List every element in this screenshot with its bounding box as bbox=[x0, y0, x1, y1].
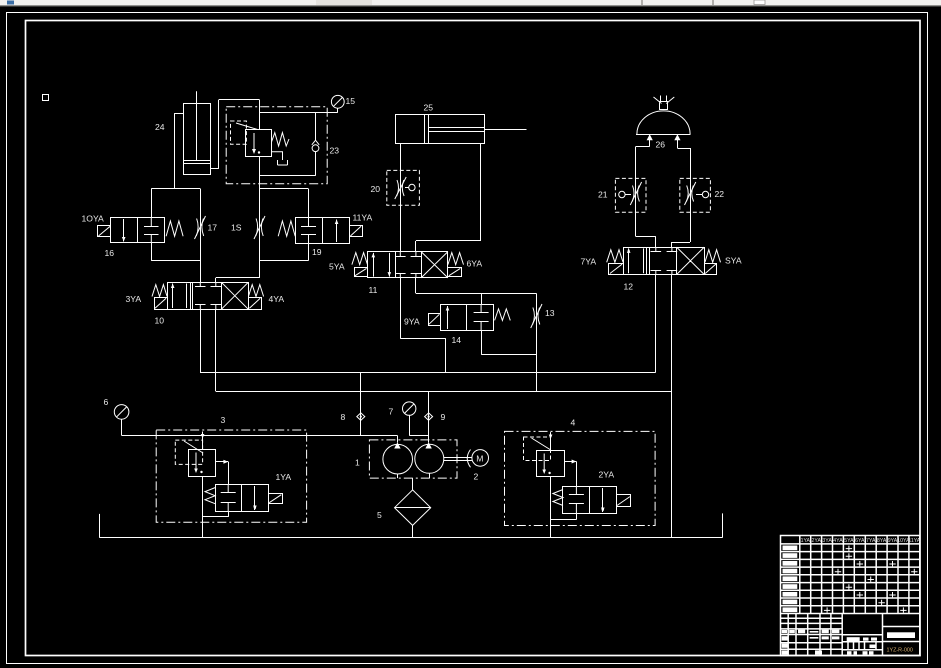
svg-text:3YA: 3YA bbox=[126, 294, 142, 304]
svg-text:SYA: SYA bbox=[725, 256, 742, 266]
svg-text:2YA: 2YA bbox=[599, 470, 615, 480]
svg-text:15: 15 bbox=[346, 96, 356, 106]
svg-text:22: 22 bbox=[715, 189, 725, 199]
svg-text:3YA: 3YA bbox=[822, 538, 832, 544]
svg-text:17: 17 bbox=[208, 223, 218, 233]
svg-text:5YA: 5YA bbox=[329, 262, 345, 272]
svg-text:1S: 1S bbox=[231, 223, 242, 233]
svg-text:21: 21 bbox=[598, 190, 608, 200]
svg-text:1YZ-R-000: 1YZ-R-000 bbox=[887, 648, 913, 654]
svg-text:8YA: 8YA bbox=[877, 538, 887, 544]
svg-text:24: 24 bbox=[155, 122, 165, 132]
svg-text:4: 4 bbox=[571, 418, 576, 428]
svg-text:23: 23 bbox=[330, 146, 340, 156]
svg-text:1YA: 1YA bbox=[276, 472, 292, 482]
svg-text:11YA: 11YA bbox=[908, 538, 920, 544]
svg-text:1YA: 1YA bbox=[801, 538, 811, 544]
svg-text:3: 3 bbox=[221, 415, 226, 425]
svg-text:6YA: 6YA bbox=[467, 259, 483, 269]
svg-text:12: 12 bbox=[624, 282, 634, 292]
svg-text:6YA: 6YA bbox=[855, 538, 865, 544]
svg-text:1OYA: 1OYA bbox=[82, 214, 105, 224]
svg-text:5YA: 5YA bbox=[844, 538, 854, 544]
svg-text:9YA: 9YA bbox=[404, 317, 420, 327]
svg-text:8: 8 bbox=[341, 412, 346, 422]
svg-text:10: 10 bbox=[155, 316, 165, 326]
svg-text:4YA: 4YA bbox=[269, 294, 285, 304]
svg-text:26: 26 bbox=[656, 140, 666, 150]
svg-text:2YA: 2YA bbox=[811, 538, 821, 544]
svg-text:16: 16 bbox=[105, 248, 115, 258]
svg-text:11YA: 11YA bbox=[353, 213, 373, 223]
svg-text:25: 25 bbox=[424, 103, 434, 113]
svg-text:5: 5 bbox=[377, 510, 382, 520]
svg-text:6: 6 bbox=[104, 397, 109, 407]
svg-text:7YA: 7YA bbox=[581, 257, 597, 267]
svg-text:4YA: 4YA bbox=[833, 538, 843, 544]
svg-text:11: 11 bbox=[369, 285, 378, 295]
svg-text:M: M bbox=[476, 454, 483, 464]
svg-text:13: 13 bbox=[545, 308, 555, 318]
svg-text:14: 14 bbox=[452, 335, 462, 345]
svg-text:9: 9 bbox=[441, 412, 446, 422]
svg-text:2: 2 bbox=[474, 472, 479, 482]
svg-text:20: 20 bbox=[371, 184, 381, 194]
svg-text:19: 19 bbox=[312, 247, 322, 257]
svg-text:7YA: 7YA bbox=[866, 538, 876, 544]
svg-text:7: 7 bbox=[389, 407, 394, 417]
svg-text:1: 1 bbox=[355, 458, 360, 468]
